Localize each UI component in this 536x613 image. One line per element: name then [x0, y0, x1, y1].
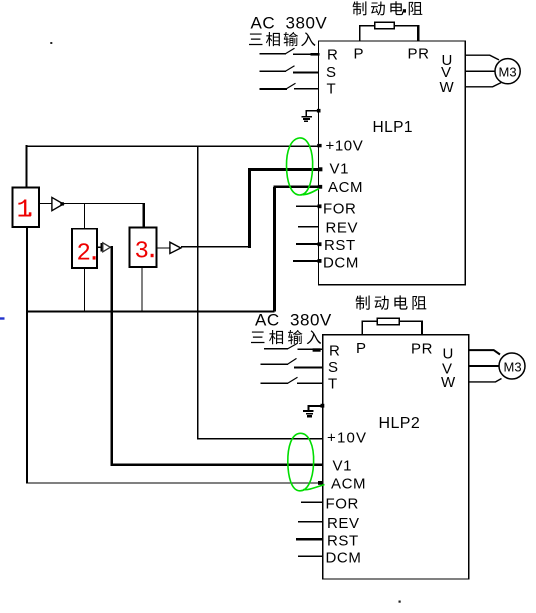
svg-text:AC 380V: AC 380V [255, 311, 332, 330]
svg-text:R: R [329, 343, 340, 360]
svg-text:ACM: ACM [328, 179, 363, 196]
svg-text:+10V: +10V [326, 138, 364, 155]
ground 1 [301, 109, 320, 122]
svg-text:V1: V1 [333, 458, 353, 475]
green ellipse 1 [286, 138, 319, 195]
svg-text:AC 380V: AC 380V [251, 14, 328, 33]
svg-text:HLP2: HLP2 [379, 415, 421, 432]
svg-text:1: 1 [17, 195, 33, 225]
wire branch down to box2 [83, 204, 85, 229]
svg-text:W: W [440, 79, 455, 96]
wire P riser 2 [361, 321, 363, 335]
wire P riser 1 [359, 25, 361, 41]
wire box1 bottom down to HLP2 ACM [26, 227, 28, 483]
terminal FOR 2 [301, 501, 323, 503]
svg-text:R: R [327, 47, 338, 64]
svg-text:DCM: DCM [323, 255, 359, 272]
box 3 [130, 228, 157, 268]
switch S 2 [261, 363, 288, 365]
motor M3 circle 2 [499, 353, 525, 379]
svg-text:+10V: +10V [327, 430, 367, 447]
svg-text:REV: REV [326, 220, 359, 237]
green ellipse 2 [288, 433, 325, 491]
label 三相输入 1 [249, 32, 315, 46]
switch R 2 [264, 348, 288, 350]
svg-text:3: 3 [135, 239, 149, 266]
wire down to box3 (thick) [143, 203, 146, 228]
stray dot bottom [399, 601, 401, 603]
box 2 [72, 229, 97, 268]
motor M3 circle 1 [495, 59, 520, 84]
label 三相输入 2 [251, 330, 321, 344]
wire ACM riser (thick) to HLP1 ACM [273, 187, 276, 312]
svg-text:DCM: DCM [326, 550, 362, 567]
wire +10V bus to HLP1 +10V [27, 145, 319, 147]
svg-text:M3: M3 [504, 360, 522, 375]
wire W to motor 2 [469, 379, 502, 382]
dot after 电 [403, 9, 406, 12]
switch T 2 [261, 382, 288, 384]
wire up to HLP1 V1 (thick) [248, 168, 251, 248]
switch R 1 [260, 53, 286, 55]
wire box3 bottom to bus [141, 267, 143, 311]
terminal RST 1 [296, 243, 319, 245]
svg-text:T: T [327, 81, 337, 98]
wire box2 bottom to bus [83, 268, 85, 311]
buffer triangle 1 [52, 197, 64, 210]
svg-text:W: W [441, 374, 456, 391]
svg-text:FOR: FOR [323, 201, 356, 218]
wire box1 top riser [26, 145, 28, 187]
switch S 1 [260, 70, 286, 72]
blue dash left edge [0, 317, 5, 319]
wire PR riser 1 (thick) [417, 25, 420, 41]
label 制动电阻 HLP2 [356, 295, 427, 309]
wire box1 to buffer [40, 203, 52, 205]
svg-text:2: 2 [77, 241, 91, 268]
terminal RST 2 [296, 538, 323, 540]
stray dot top-left [50, 42, 52, 44]
wire +10V branch down to HLP2 [197, 146, 199, 439]
svg-text:PR: PR [408, 46, 430, 63]
brake resistor 1 [360, 25, 375, 27]
svg-text:P: P [354, 46, 365, 63]
brake resistor 2 [362, 320, 377, 322]
terminal REV 1 [298, 226, 319, 228]
svg-text:S: S [328, 359, 339, 376]
label 制动电阻 HLP1 [353, 1, 423, 15]
inverter box HLP2 [323, 335, 469, 579]
buffer triangle 3 [170, 242, 181, 253]
wire U to motor 1 [465, 55, 499, 60]
terminal DCM 1 [293, 260, 319, 262]
svg-text:S: S [326, 64, 337, 81]
ground 2 [303, 404, 325, 417]
svg-text:HLP1: HLP1 [373, 119, 413, 136]
wire box2 output stub [98, 246, 101, 248]
wire arrow2 down to HLP2 V1 (thick) [110, 246, 113, 465]
terminal +10V 1 [317, 144, 321, 147]
inverter box HLP1 [319, 41, 466, 285]
wire triangle3 to corner [181, 246, 250, 248]
wire W to motor 1 [465, 83, 501, 87]
svg-text:REV: REV [327, 515, 360, 532]
svg-text:ACM: ACM [331, 476, 366, 493]
wire box3 output stub [157, 247, 169, 249]
terminal V1 1 [319, 167, 323, 171]
terminal FOR 1 [296, 205, 318, 207]
svg-text:P: P [356, 340, 367, 357]
svg-text:M3: M3 [499, 65, 517, 80]
terminal REV 2 [298, 521, 323, 523]
svg-text:V1: V1 [330, 161, 350, 178]
svg-text:RST: RST [327, 533, 359, 550]
wire V to motor 1 [465, 70, 495, 72]
svg-text:T: T [328, 376, 338, 393]
svg-text:PR: PR [411, 341, 433, 358]
switch T 1 [260, 88, 287, 90]
wire buffer1 output to box2/box3 [63, 203, 144, 205]
wire V to motor 2 [469, 365, 500, 367]
terminal DCM 2 [298, 555, 323, 557]
ACM bus y311 [27, 311, 275, 313]
svg-text:FOR: FOR [326, 496, 359, 513]
junction dot at buffer1 output [60, 202, 64, 205]
wire PR riser 2 [421, 321, 423, 335]
wire U to motor 2 [469, 350, 500, 354]
svg-text:RST: RST [324, 237, 356, 254]
box 1 [13, 188, 40, 228]
arrow symbol 2 (bar + arrowhead) [101, 243, 103, 252]
